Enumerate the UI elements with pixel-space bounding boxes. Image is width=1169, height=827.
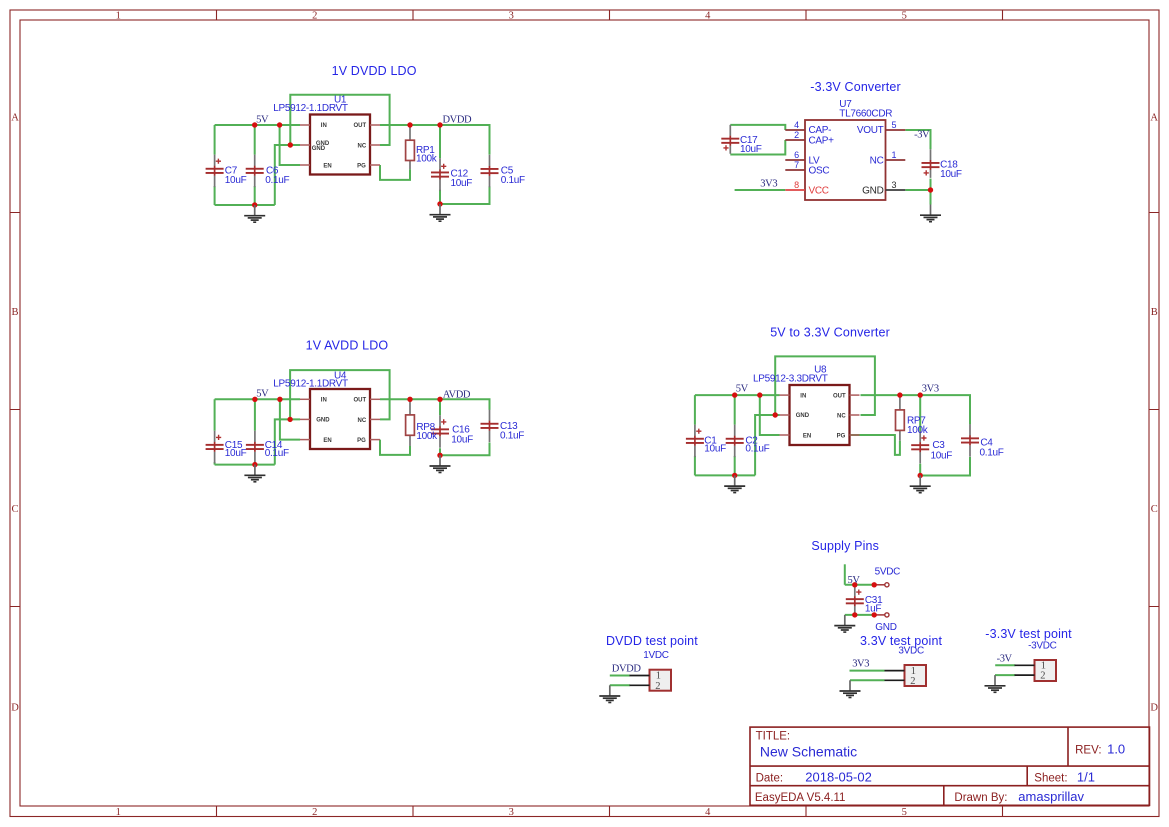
pin GND connector <box>874 613 889 617</box>
svg-text:0.1uF: 0.1uF <box>501 175 525 186</box>
ground U7 output <box>920 205 941 222</box>
svg-text:3: 3 <box>892 180 897 190</box>
connector 3.3V test point TP (3VDC) <box>885 665 927 687</box>
resistor RP7 (100k) <box>896 395 905 441</box>
svg-text:IN: IN <box>800 393 806 399</box>
wire 5V rail (block 1) <box>215 124 300 126</box>
wire NC-GND loop over U4 <box>290 370 390 419</box>
svg-text:EN: EN <box>803 433 811 439</box>
junction AVDD/RP8 <box>407 397 412 402</box>
svg-text:A: A <box>1150 112 1158 123</box>
capacitor C31 (1uF) <box>846 587 864 612</box>
svg-text:2018-05-02: 2018-05-02 <box>805 770 872 785</box>
svg-text:C4: C4 <box>980 437 993 448</box>
svg-text:3V3: 3V3 <box>922 384 939 395</box>
svg-text:LP5912-1.1DRVT: LP5912-1.1DRVT <box>273 103 348 114</box>
capacitor C12 (10uF) <box>431 158 449 191</box>
wire GND pin to -3V vertical (U7) <box>905 189 930 191</box>
wire C18 bottom lead to GND node <box>930 179 932 190</box>
svg-text:AVDD: AVDD <box>443 389 471 400</box>
svg-text:0.1uF: 0.1uF <box>500 431 524 442</box>
svg-text:5: 5 <box>902 807 907 818</box>
wire ground rail left (block 1) <box>215 204 275 206</box>
svg-text:100k: 100k <box>907 425 929 436</box>
wire C13 bottom to ground rail <box>440 443 490 456</box>
svg-text:10uF: 10uF <box>940 169 962 180</box>
wire TP3 pin 2 to ground <box>995 674 1015 676</box>
svg-text:4: 4 <box>794 120 799 130</box>
wire GND run (U1) <box>275 145 300 205</box>
svg-text:0.1uF: 0.1uF <box>745 444 769 455</box>
capacitor C4 (0.1uF) <box>961 424 979 457</box>
junction GND pin (U1) <box>288 142 293 147</box>
junction C31 bottom <box>852 612 857 617</box>
junction AVDD/C16 <box>437 397 442 402</box>
wire EN drop from 5V (U1) <box>280 125 300 165</box>
wire supply top rail <box>845 584 874 586</box>
svg-text:LP5912-1.1DRVT: LP5912-1.1DRVT <box>273 378 348 389</box>
svg-text:2: 2 <box>312 10 317 21</box>
svg-text:DVDD: DVDD <box>612 664 642 675</box>
wire TP1 pin 2 to ground <box>610 684 630 686</box>
svg-text:GND: GND <box>875 622 896 633</box>
svg-text:100k: 100k <box>416 154 438 165</box>
svg-text:4: 4 <box>705 10 711 21</box>
wire ground rail left (block 4) <box>695 474 755 476</box>
ground 3.3V test point <box>840 680 861 697</box>
svg-text:10uF: 10uF <box>225 448 247 459</box>
svg-text:GND: GND <box>312 146 326 152</box>
wire C17 top to CAP- (U7) <box>730 125 785 130</box>
svg-text:6: 6 <box>794 150 799 160</box>
junction 5V/EN (block 1) <box>277 122 282 127</box>
wire C4 bottom to ground rail <box>920 457 970 476</box>
junction DVDD/C12 <box>437 122 442 127</box>
svg-text:1/1: 1/1 <box>1077 770 1095 785</box>
ground block 4 left <box>724 475 745 492</box>
junction DVDD/RP1 <box>407 122 412 127</box>
frame row letters (right) <box>1150 112 1158 713</box>
svg-text:7: 7 <box>794 160 799 170</box>
wire 3V3 rail <box>861 395 971 424</box>
svg-text:5V to 3.3V Converter: 5V to 3.3V Converter <box>770 326 890 340</box>
wire TP2 pin 2 to ground <box>850 679 885 681</box>
ground block 3 right <box>430 455 451 472</box>
svg-text:1V DVDD LDO: 1V DVDD LDO <box>332 64 417 78</box>
title block <box>750 727 1150 805</box>
junction 3V3/RP7 <box>897 392 902 397</box>
wire PG to RP1 (block 1) <box>380 165 410 180</box>
svg-text:8: 8 <box>794 180 799 190</box>
junction C14 ground (block 3) <box>252 462 257 467</box>
junction 5V/C31 top <box>852 582 857 587</box>
svg-text:2: 2 <box>312 807 317 818</box>
capacitor C2 (0.1uF) <box>726 425 744 458</box>
wire 5V stub (supply pins) <box>844 564 846 585</box>
wire NC-GND loop over U1 <box>290 95 389 145</box>
junction C12 ground (block 1) <box>437 201 442 206</box>
wire C15 branch <box>214 399 216 464</box>
capacitor C7 (10uF) <box>206 155 224 188</box>
ground block 1 left <box>244 205 265 222</box>
svg-text:B: B <box>11 307 18 318</box>
svg-text:New Schematic: New Schematic <box>760 744 857 760</box>
pin 5VDC connector <box>874 583 889 587</box>
wire 3V3 to VCC (U7) <box>735 189 786 191</box>
svg-text:IN: IN <box>321 123 327 129</box>
svg-text:10uF: 10uF <box>451 178 473 189</box>
IC U7 TL7660CDR <box>785 120 905 200</box>
wire PG to RP8 (block 3) <box>380 440 410 455</box>
svg-text:-3V: -3V <box>997 654 1013 665</box>
svg-text:-3.3V test point: -3.3V test point <box>985 627 1072 641</box>
svg-text:B: B <box>1151 307 1158 318</box>
resistor RP1 (100k) <box>406 125 415 169</box>
svg-text:-3.3V Converter: -3.3V Converter <box>810 80 900 94</box>
wire EN drop from 5V (U8) <box>760 395 780 435</box>
svg-text:amasprillav: amasprillav <box>1018 789 1084 804</box>
svg-text:-3V: -3V <box>914 129 930 140</box>
svg-text:NC: NC <box>358 143 367 149</box>
wire C14 branch <box>254 399 256 464</box>
IC U8 LP5912-3.3DRVT <box>780 385 860 445</box>
ground block 4 right <box>910 476 931 493</box>
wire 5V rail (block 3) <box>215 398 300 400</box>
junction C16 ground (block 3) <box>437 453 442 458</box>
junction C3 ground (block 4) <box>918 473 923 478</box>
frame column numbers (top) <box>116 10 907 21</box>
svg-text:DVDD test point: DVDD test point <box>606 634 698 648</box>
svg-text:OSC: OSC <box>809 165 830 176</box>
wire ground rail left (block 3) <box>215 464 275 466</box>
junction GND pin (U4) <box>287 417 292 422</box>
svg-text:EasyEDA V5.4.11: EasyEDA V5.4.11 <box>755 792 846 804</box>
svg-text:OUT: OUT <box>354 123 367 129</box>
capacitor C18 (10uF) <box>922 149 940 178</box>
ground supply pins <box>834 615 855 632</box>
svg-text:Drawn By:: Drawn By: <box>954 792 1007 804</box>
svg-text:5V: 5V <box>256 114 269 125</box>
svg-text:5VDC: 5VDC <box>875 567 901 578</box>
svg-text:GND: GND <box>796 413 810 419</box>
wire C16 branch <box>439 399 441 455</box>
wire -3V to TP3 pin 1 <box>995 664 1015 666</box>
svg-text:VCC: VCC <box>809 185 829 196</box>
capacitor C3 (10uF) <box>911 431 929 464</box>
ground block 3 left <box>244 465 265 482</box>
svg-text:GND: GND <box>862 185 883 196</box>
resistor RP8 (100k) <box>406 399 415 446</box>
svg-text:Sheet:: Sheet: <box>1034 773 1067 785</box>
svg-text:CAP+: CAP+ <box>809 135 835 146</box>
svg-text:Date:: Date: <box>756 773 784 785</box>
ground -3.3V test point <box>985 675 1006 692</box>
wire ground stub (U7) <box>930 190 932 205</box>
wire C6 branch <box>254 125 256 205</box>
svg-text:LP5912-3.3DRVT: LP5912-3.3DRVT <box>753 373 828 384</box>
svg-text:2: 2 <box>655 681 660 692</box>
wire EN drop from 5V (U4) <box>280 399 300 439</box>
svg-text:0.1uF: 0.1uF <box>265 448 289 459</box>
svg-text:D: D <box>11 702 19 713</box>
svg-text:0.1uF: 0.1uF <box>265 175 289 186</box>
svg-text:2: 2 <box>910 676 915 687</box>
junction 5V/C6 (block 1) <box>252 122 257 127</box>
svg-text:0.1uF: 0.1uF <box>980 448 1004 459</box>
svg-text:100k: 100k <box>416 431 438 442</box>
svg-text:1: 1 <box>116 10 121 21</box>
svg-text:EN: EN <box>323 438 331 444</box>
wire 3V3 to TP2 pin 1 <box>850 670 885 672</box>
wire C2 branch <box>734 395 736 475</box>
svg-text:1.0: 1.0 <box>1107 742 1125 757</box>
svg-text:D: D <box>1150 702 1158 713</box>
svg-text:EN: EN <box>323 163 331 169</box>
junction 5V/EN (block 4) <box>757 392 762 397</box>
svg-text:5V: 5V <box>848 575 861 586</box>
svg-text:3V3: 3V3 <box>760 179 777 190</box>
junction C2 ground (block 4) <box>732 473 737 478</box>
connector -3.3V test point TP (-3VDC) <box>1015 660 1057 682</box>
svg-text:3V3: 3V3 <box>852 659 869 670</box>
capacitor C5 (0.1uF) <box>481 155 499 188</box>
svg-text:10uF: 10uF <box>225 175 247 186</box>
frame row letters (left) <box>11 112 19 713</box>
capacitor C16 (10uF) <box>431 415 449 448</box>
wire NC-GND loop over U8 <box>775 356 875 415</box>
junction C6 ground (block 1) <box>252 202 257 207</box>
junction GND/-3V node (U7) <box>928 187 933 192</box>
frame column numbers (bottom) <box>116 807 907 818</box>
svg-text:10uF: 10uF <box>931 450 953 461</box>
svg-text:PG: PG <box>837 433 846 439</box>
svg-text:1VDC: 1VDC <box>643 650 669 661</box>
svg-text:2: 2 <box>794 130 799 140</box>
wire DVDD rail <box>380 125 490 155</box>
svg-text:3VDC: 3VDC <box>898 645 924 656</box>
svg-text:NC: NC <box>358 418 367 424</box>
svg-text:A: A <box>11 112 19 123</box>
capacitor C1 (10uF) <box>686 425 704 458</box>
svg-text:3: 3 <box>509 807 514 818</box>
svg-text:OUT: OUT <box>354 398 367 404</box>
svg-text:1V AVDD LDO: 1V AVDD LDO <box>306 339 389 353</box>
wire CAP+ to C17 bottom (U7) <box>730 140 785 155</box>
svg-text:NC: NC <box>837 413 846 419</box>
svg-text:10uF: 10uF <box>451 435 473 446</box>
junction 5V/C14 (block 3) <box>252 397 257 402</box>
svg-text:PG: PG <box>357 163 366 169</box>
junction GND pin (U8) <box>773 412 778 417</box>
connector DVDD test point TP (1VDC) <box>630 670 672 692</box>
wire 5V rail (block 4) <box>695 394 780 396</box>
svg-text:C: C <box>11 504 18 515</box>
wire DVDD to TP1 pin 1 <box>610 675 630 677</box>
svg-text:VOUT: VOUT <box>857 125 884 136</box>
ground DVDD test point <box>599 685 620 702</box>
wire C1 branch <box>694 395 696 475</box>
svg-text:5V: 5V <box>736 384 749 395</box>
svg-text:10uF: 10uF <box>704 444 726 455</box>
svg-text:NC: NC <box>870 155 884 166</box>
IC U4 LP5912-1.1DRVT <box>300 389 380 449</box>
svg-text:REV:: REV: <box>1075 745 1101 757</box>
IC U1 LP5912-1.1DRVT <box>300 115 380 175</box>
svg-text:5V: 5V <box>256 389 269 400</box>
svg-text:1: 1 <box>116 807 121 818</box>
junction GND pin node <box>872 612 877 617</box>
wire C5 bottom to ground rail <box>440 186 490 204</box>
capacitor C13 (0.1uF) <box>481 410 499 443</box>
svg-text:GND: GND <box>316 418 330 424</box>
svg-text:-3VDC: -3VDC <box>1028 641 1057 652</box>
wire GND run (U8) <box>755 415 779 475</box>
junction 5VDC pin node <box>872 582 877 587</box>
wire C3 branch <box>919 395 921 475</box>
svg-text:PG: PG <box>357 438 366 444</box>
svg-text:5: 5 <box>892 120 897 130</box>
svg-text:C: C <box>1151 504 1158 515</box>
svg-text:10uF: 10uF <box>740 144 762 155</box>
svg-text:IN: IN <box>321 398 327 404</box>
svg-text:1: 1 <box>892 150 897 160</box>
wire AVDD rail <box>380 399 490 410</box>
svg-text:5: 5 <box>902 10 907 21</box>
ground block 1 right <box>430 204 451 221</box>
svg-text:TITLE:: TITLE: <box>756 731 791 743</box>
junction 5V/EN (block 3) <box>277 397 282 402</box>
svg-text:3: 3 <box>509 10 514 21</box>
wire supply bottom rail <box>845 614 874 616</box>
junction 3V3/C3 <box>918 392 923 397</box>
svg-text:2: 2 <box>1040 671 1045 682</box>
svg-text:TL7660CDR: TL7660CDR <box>839 108 892 119</box>
svg-text:4: 4 <box>705 807 711 818</box>
wire GND run (U4) <box>275 419 300 464</box>
capacitor C6 (0.1uF) <box>246 155 264 188</box>
wire C12 branch <box>439 125 441 204</box>
capacitor C15 (10uF) <box>206 431 224 464</box>
svg-text:DVDD: DVDD <box>443 115 473 126</box>
wire PG loop to RP7 (block 4) <box>851 435 900 455</box>
svg-text:Supply Pins: Supply Pins <box>811 539 879 553</box>
capacitor C14 (0.1uF) <box>246 431 264 464</box>
wire VOUT to -3V node <box>905 130 930 149</box>
junction 5V/C2 (block 4) <box>732 392 737 397</box>
svg-text:OUT: OUT <box>833 393 846 399</box>
wire C7 branch <box>214 125 216 205</box>
capacitor C17 (10uF) <box>721 125 739 154</box>
